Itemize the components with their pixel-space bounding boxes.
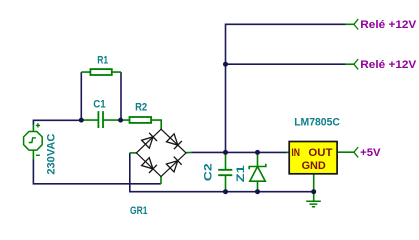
- svg-text:Relé +12V: Relé +12V: [360, 59, 417, 71]
- power flag arc +5V: [354, 147, 358, 157]
- svg-text:C2: C2: [203, 163, 215, 181]
- resistor R2: [130, 117, 152, 123]
- wire C2 leads: [225, 152, 227, 191]
- wire regulator IN stub: [286, 151, 289, 153]
- svg-text:GND: GND: [302, 160, 326, 172]
- regulator U1 LM7805C body: [289, 142, 337, 174]
- svg-text:Relé +12V: Relé +12V: [360, 19, 417, 31]
- wire R2 pin stubs: [121, 120, 162, 129]
- capacitor C1 plates: [98, 111, 103, 128]
- capacitor C2 plates: [218, 170, 232, 175]
- power flag arc 1: [354, 19, 358, 29]
- resistor R1: [90, 69, 111, 75]
- svg-text:LM7805C: LM7805C: [294, 116, 340, 128]
- junction dot node top2: [223, 62, 228, 67]
- svg-text:IN: IN: [291, 147, 300, 159]
- junction dot node C2 bottom: [223, 189, 228, 194]
- svg-text:C1: C1: [93, 98, 105, 110]
- bridge diode D-bottom-right: [166, 157, 181, 172]
- wire AC source top to C1 node: [33, 120, 81, 125]
- svg-text:230VAC: 230VAC: [46, 134, 58, 175]
- ground symbol: [306, 201, 321, 207]
- power flag arc 2: [354, 59, 358, 69]
- wire Z1 leads: [257, 152, 259, 191]
- junction dot node C1 right: [118, 118, 123, 123]
- voltage source V1 plus mark: [36, 123, 40, 127]
- junction dot node ground: [311, 189, 316, 194]
- bridge diode D-top-right: [166, 134, 181, 149]
- wire R1 right vertical: [120, 72, 122, 120]
- bridge rectifier GR1 diamond: [136, 129, 186, 176]
- wire bridge negative to ground rail: [130, 153, 314, 192]
- wire bridge bottom stub: [160, 177, 162, 184]
- svg-text:R1: R1: [97, 55, 108, 67]
- wire top branch 2 (to Relé +12V lower): [226, 63, 346, 65]
- bridge diode D-top-left: [142, 133, 157, 148]
- voltage source V1 sine glyph: [29, 138, 36, 143]
- wire top branch 1 (to Relé +12V upper): [226, 24, 346, 152]
- wire R1 pin stubs: [81, 71, 121, 73]
- wire C1 pin stubs: [81, 119, 120, 121]
- svg-text:Z1: Z1: [235, 165, 247, 182]
- bridge diode D-bottom-left: [141, 158, 156, 173]
- wire bridge left stub: [130, 152, 137, 154]
- wire regulator GND pin to ground: [313, 174, 315, 201]
- wire bridge right stub: [186, 151, 192, 153]
- wire regulator OUT to +5V flag: [338, 151, 354, 153]
- voltage source V1 230VAC body: [24, 132, 43, 151]
- wire flag2 stub: [346, 63, 354, 65]
- junction dot node C2 top: [223, 150, 228, 155]
- junction dot node C1 left: [79, 118, 84, 123]
- wire R1 left vertical: [80, 72, 82, 120]
- junction dot node Z1 bottom: [255, 189, 260, 194]
- zener diode Z1: [249, 164, 266, 181]
- wire AC source bottom to bridge: [33, 159, 160, 183]
- wire flag1 stub: [346, 23, 354, 25]
- junction dot node Z1 top: [255, 150, 260, 155]
- svg-text:OUT: OUT: [308, 147, 332, 159]
- wire positive rail: [192, 151, 287, 153]
- voltage source V1 230VAC leads: [32, 125, 34, 160]
- svg-text:GR1: GR1: [130, 205, 147, 217]
- svg-text:R2: R2: [135, 101, 147, 113]
- voltage source V1 minus mark: [36, 154, 40, 156]
- svg-text:+5V: +5V: [360, 147, 381, 159]
